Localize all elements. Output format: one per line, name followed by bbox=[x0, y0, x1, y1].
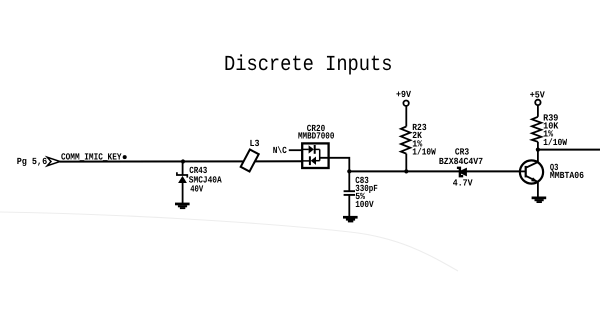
ground (C83) bbox=[343, 216, 358, 223]
wire: CR43 tap vertical bbox=[182, 162, 184, 176]
power +9V bbox=[396, 89, 411, 106]
svg-text:N\C: N\C bbox=[273, 145, 287, 156]
wire: CR20 output to C83 corner bbox=[320, 158, 350, 172]
diode CR43 (TVS zener) bbox=[177, 172, 187, 183]
wire: main net to transistor base bbox=[349, 170, 520, 172]
value label R39 10K 1% 1/10W bbox=[543, 112, 567, 148]
power +5V bbox=[530, 89, 545, 105]
svg-text:1/10W: 1/10W bbox=[412, 147, 436, 158]
transistor Q3 bbox=[520, 160, 543, 183]
wire: emitter to ground bbox=[537, 182, 539, 197]
dual diode CR20 MMBD7000 bbox=[302, 143, 328, 168]
zener diode CR3 bbox=[457, 168, 467, 177]
node junction at C83 bbox=[347, 169, 351, 173]
value label CR3 BZX84C4V7 4.7V bbox=[439, 147, 483, 189]
svg-text:100V: 100V bbox=[355, 199, 374, 210]
svg-text:4.7V: 4.7V bbox=[453, 178, 473, 189]
svg-text:40V: 40V bbox=[190, 184, 203, 195]
svg-text:+9V: +9V bbox=[396, 89, 411, 100]
wire: N\C stub to CR20 pin 1 bbox=[289, 149, 302, 151]
wire: rail to right edge bbox=[538, 149, 600, 151]
wire: +5V to R39 bbox=[537, 105, 539, 117]
node junction at R23 bbox=[404, 169, 408, 173]
node junction at R39 / collector bbox=[536, 148, 540, 152]
node junction at CR43 tap bbox=[181, 159, 185, 163]
svg-text:+5V: +5V bbox=[530, 89, 545, 100]
value label C83 330pF 5% 100V bbox=[355, 175, 378, 210]
wire: connector to CR20 (net COMM_IMIC_KEY*) bbox=[60, 160, 303, 162]
wire: R23 bottom lead bbox=[405, 154, 407, 172]
wire: C83 bottom lead bbox=[348, 196, 350, 217]
value label CR43 SMCJ40A 40V bbox=[189, 165, 222, 195]
resistor R23 bbox=[401, 127, 410, 154]
wire: CR43 anode to ground bbox=[182, 183, 184, 204]
wire: R39 bottom lead bbox=[537, 142, 539, 150]
svg-text:Discrete Inputs: Discrete Inputs bbox=[224, 53, 393, 77]
wire: C83 top lead bbox=[348, 171, 350, 190]
value label CR20 MMBD7000 bbox=[298, 123, 335, 142]
svg-text:1/10W: 1/10W bbox=[543, 137, 567, 148]
off-page connector Pg 5,6 bbox=[17, 156, 60, 167]
svg-text:L3: L3 bbox=[250, 138, 260, 149]
value label Q3 MMBTA06 bbox=[550, 162, 584, 181]
capacitor C83 bbox=[344, 191, 355, 195]
svg-text:MMBTA06: MMBTA06 bbox=[550, 170, 584, 181]
ground (CR43) bbox=[175, 203, 190, 209]
wire: collector riser bbox=[537, 150, 539, 163]
svg-text:MMBD7000: MMBD7000 bbox=[298, 131, 335, 142]
inductor / ferrite bead L3 bbox=[241, 138, 260, 171]
wire: +9V to R23 bbox=[405, 106, 407, 127]
value label R23 2K 1% 1/10W bbox=[412, 122, 436, 158]
resistor R39 bbox=[532, 117, 541, 142]
ground (Q3 emitter) bbox=[532, 197, 547, 204]
svg-text:BZX84C4V7: BZX84C4V7 bbox=[439, 156, 483, 167]
svg-text:Pg 5,6: Pg 5,6 bbox=[17, 156, 48, 167]
